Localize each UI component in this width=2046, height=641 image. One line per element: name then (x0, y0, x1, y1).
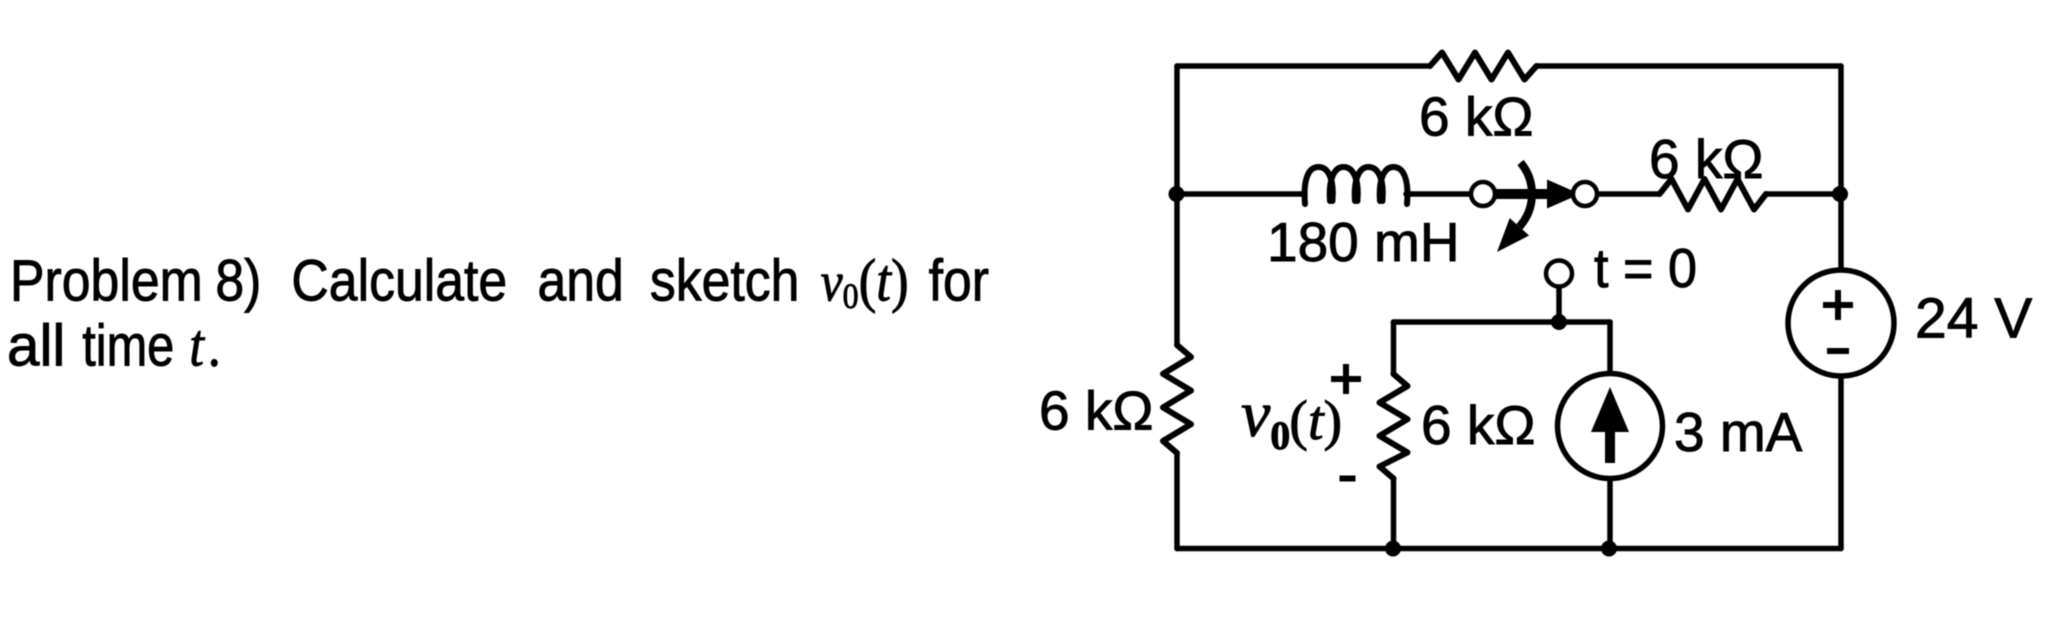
problem statement text line 1 (10, 248, 989, 317)
junction node: current source / bottom rail (1601, 541, 1617, 557)
svg-text:t = 0: t = 0 (1594, 237, 1697, 299)
junction node: switch stub / sub-circuit top wire (1551, 314, 1567, 330)
resistor R1 6 kOhm top zigzag (1430, 53, 1537, 80)
wire: switch bottom contact stub down to sub-circuit top wire (1556, 288, 1562, 323)
svg-text:3 mA: 3 mA (1674, 401, 1803, 463)
svg-text:Problem8)Calculateandsketchv0(: Problem8)Calculateandsketchv0(t)for (10, 248, 989, 317)
wire: right vertical above voltage source (1838, 66, 1844, 270)
wire: switch right contact to resistor R2 (1597, 191, 1660, 197)
voltage source V1 24 V circle (1788, 270, 1894, 376)
label: plus polarity mark for v0(t) (1331, 364, 1361, 394)
svg-text:alltimet.: alltimet. (7, 313, 221, 380)
problem statement text line 2 (7, 313, 221, 380)
voltage source V1 plus sign (1823, 290, 1853, 320)
wire: resistor R2 to right node (1766, 191, 1841, 197)
junction node: left rail / middle row (1169, 186, 1185, 202)
resistor R2 6 kOhm middle row zigzag (1660, 179, 1767, 210)
wire: middle resistor branch lower (1391, 479, 1397, 549)
current source I1 arrowhead (1591, 387, 1629, 432)
svg-text:180 mH: 180 mH (1267, 211, 1460, 273)
wire: sub-circuit top wire (1394, 319, 1611, 325)
wire: current source branch upper (1607, 322, 1613, 374)
switch SW1 bottom contact (t=0 throw) (1546, 261, 1572, 287)
svg-text:6 kΩ: 6 kΩ (1419, 86, 1534, 148)
wire: bottom wire (1177, 546, 1841, 552)
wire: right vertical below voltage source (1838, 376, 1844, 549)
current source I1 3 mA circle (1558, 374, 1663, 479)
svg-text:6 kΩ: 6 kΩ (1421, 394, 1536, 456)
wire: left vertical branch bottom (1174, 453, 1180, 549)
wire: current source branch lower (1607, 479, 1613, 549)
svg-text:v0(t): v0(t) (1241, 378, 1342, 458)
resistor R3 6 kOhm left vertical zigzag (1163, 345, 1191, 453)
junction node: right rail / middle row (1832, 186, 1848, 202)
switch SW1 arm arrowhead (1547, 180, 1580, 209)
wire: left vertical branch top (node A to resistor) (1174, 66, 1180, 345)
current source I1 arrow shaft (1605, 430, 1615, 463)
svg-text:6 kΩ: 6 kΩ (1649, 128, 1764, 190)
svg-text:24 V: 24 V (1915, 287, 2032, 351)
junction node: middle resistor / bottom rail (1385, 541, 1401, 557)
wire: middle resistor branch upper (1391, 322, 1397, 374)
switch SW1 motion arc (swings down at t=0) (1519, 163, 1532, 227)
resistor R4 6 kOhm middle vertical zigzag (1380, 374, 1408, 479)
wire: middle row from left node to inductor (1177, 191, 1305, 197)
switch SW1 left contact (1471, 182, 1495, 206)
inductor L1 180 mH (1305, 167, 1408, 204)
switch SW1 motion arrowhead (1497, 218, 1529, 252)
wire: inductor to switch left contact (1406, 191, 1470, 197)
wire: top wire left segment (1177, 63, 1430, 69)
svg-text:6 kΩ: 6 kΩ (1039, 380, 1154, 442)
wire: top wire right segment (1537, 63, 1842, 69)
voltage source V1 minus sign (1827, 348, 1849, 354)
switch SW1 right contact (1573, 182, 1597, 206)
label: minus polarity mark for v0(t) (1340, 476, 1356, 482)
switch SW1 arm (closed toward right contact) (1496, 189, 1549, 199)
